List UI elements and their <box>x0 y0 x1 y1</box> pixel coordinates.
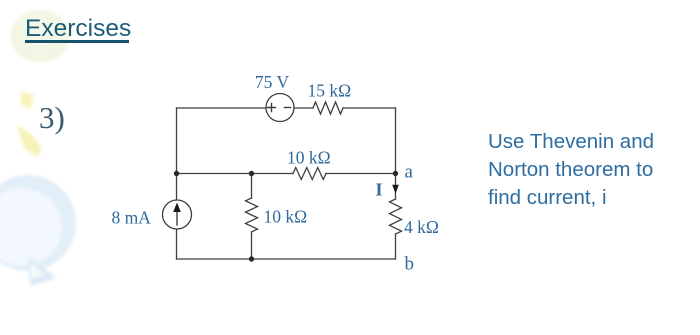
wire middle-left segment <box>177 173 294 175</box>
wire left vertical upper <box>176 108 178 200</box>
svg-text:10 kΩ: 10 kΩ <box>287 148 331 168</box>
wire top-middle segment <box>294 107 313 109</box>
node junction left-middle <box>174 171 179 176</box>
resistor R1 15k <box>313 102 343 114</box>
wire right vertical upper <box>395 108 397 199</box>
svg-text:75 V: 75 V <box>255 72 290 92</box>
task text <box>488 128 654 212</box>
wire top-right segment <box>343 107 396 109</box>
resistor R3 10k vertical <box>246 198 258 232</box>
title: Exercises <box>25 15 131 43</box>
node junction branch-bottom <box>249 256 254 261</box>
title underline <box>25 40 129 43</box>
svg-text:10 kΩ: 10 kΩ <box>264 207 308 227</box>
node a junction <box>393 171 398 176</box>
svg-text:8 mA: 8 mA <box>112 208 152 228</box>
wire middle-branch upper <box>251 174 253 199</box>
voltage source V1 75V <box>266 94 294 122</box>
wire middle-branch lower <box>251 232 253 259</box>
current source I1 8mA <box>163 200 192 229</box>
wire middle-right segment <box>326 173 396 175</box>
svg-text:15 kΩ: 15 kΩ <box>308 81 352 101</box>
wire top-left segment <box>177 107 267 109</box>
wire bottom <box>177 258 396 260</box>
svg-text:b: b <box>405 254 415 275</box>
svg-text:I: I <box>376 180 383 200</box>
svg-text:a: a <box>405 162 414 183</box>
resistor R2 10k horizontal <box>293 168 326 180</box>
node junction branch-top <box>249 171 254 176</box>
resistor R4 4k vertical <box>390 199 402 234</box>
wire left vertical lower <box>176 229 178 259</box>
svg-text:4 kΩ: 4 kΩ <box>404 217 439 237</box>
wire right vertical lower <box>395 234 397 259</box>
problem number 3) <box>39 100 65 136</box>
current arrow I at node a <box>392 185 399 194</box>
